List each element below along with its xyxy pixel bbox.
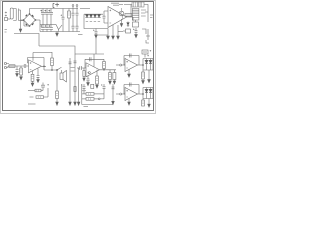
resistor R3 bbox=[9, 65, 15, 68]
capacitor C10 bbox=[103, 11, 106, 23]
component blob bbox=[123, 29, 131, 33]
wire bridge right corner bbox=[36, 20, 41, 32]
label dash op-amp4 input bbox=[116, 93, 119, 95]
wire feedback U2 bbox=[28, 58, 45, 67]
diode D6 bbox=[149, 59, 152, 71]
node 0V rail bbox=[40, 31, 80, 33]
wire x57 down bbox=[56, 70, 58, 91]
diode D5 bbox=[145, 59, 148, 71]
label resistor bottom-left bbox=[30, 96, 34, 98]
label mains bbox=[5, 30, 7, 33]
right corner wires bbox=[145, 12, 148, 22]
capacitor C16 series bbox=[80, 66, 86, 70]
rails for diodes 2 bbox=[143, 88, 153, 99]
resistor R4 bbox=[20, 66, 23, 80]
wire input bbox=[7, 64, 25, 68]
resistor R2 bbox=[125, 14, 132, 17]
diode D2 bbox=[89, 14, 92, 17]
capacitor C20 feedback bbox=[130, 54, 132, 58]
wire U5 output bbox=[138, 93, 144, 95]
heatsink block bbox=[132, 9, 146, 21]
ground arrow G9 bbox=[69, 102, 72, 105]
ground arrow G14 bbox=[148, 99, 151, 108]
op-amp U3 bbox=[86, 63, 100, 77]
ground below bridge bbox=[19, 20, 22, 32]
diode D4 bbox=[97, 14, 100, 17]
wire op-amp2 input bbox=[77, 67, 80, 69]
resistor R12 bbox=[142, 70, 145, 84]
capacitor plates on B bbox=[74, 61, 77, 63]
ground arrow G8 bbox=[135, 35, 138, 38]
capacitor C23 feedback bbox=[130, 83, 132, 87]
wire U3 output bbox=[100, 69, 117, 71]
wire stub bbox=[118, 31, 123, 33]
wire long vertical A bbox=[69, 58, 71, 102]
capacitor plates on A bbox=[69, 62, 72, 64]
wire supply Z bbox=[96, 35, 108, 54]
capacitor C18 bbox=[87, 76, 90, 86]
resistor R14 bbox=[82, 98, 99, 101]
wire feedback U5 bbox=[124, 85, 139, 95]
label dash mid bbox=[78, 34, 83, 36]
wire block down bbox=[135, 20, 137, 22]
relay K1 box b bbox=[139, 2, 145, 7]
capacitor C8 bbox=[72, 9, 75, 32]
resistor R15 bbox=[142, 99, 145, 107]
fuse F1 bbox=[10, 8, 13, 19]
capacitor C5 bbox=[44, 25, 49, 32]
resistor R8 bbox=[36, 88, 48, 98]
ground arrow G15 bbox=[77, 102, 80, 105]
wire diode row rail bbox=[84, 13, 103, 15]
capacitor C13 bbox=[16, 66, 19, 77]
op-amp U5 bbox=[125, 88, 138, 101]
input circle 2 bbox=[120, 93, 122, 95]
node + rail V+ bbox=[40, 8, 78, 10]
border frame of schematic page bbox=[3, 2, 154, 111]
label plus bbox=[147, 55, 149, 57]
ground arrow G6 bbox=[117, 25, 120, 39]
speaker LS1 bbox=[60, 70, 66, 82]
bridge rectifier B1 bbox=[23, 13, 36, 26]
terminal circles bbox=[72, 5, 74, 7]
node mid rail bbox=[40, 24, 56, 26]
capacitor C3 bbox=[48, 9, 53, 25]
corner wires right bbox=[142, 29, 150, 40]
ground arrow G16 bbox=[112, 101, 115, 104]
network left vertical bbox=[82, 84, 113, 105]
wire amp input bbox=[104, 11, 108, 23]
capacitor plates on x112.5 bbox=[112, 87, 115, 89]
resistor R16 on B bbox=[74, 87, 76, 92]
ground arrow G13 bbox=[128, 99, 131, 106]
wire junction diagonals bbox=[56, 25, 62, 32]
wire mains routing bbox=[14, 34, 39, 47]
resistor R7 bbox=[56, 91, 59, 105]
wire feedback U3 bbox=[85, 59, 104, 68]
wire tap to network bbox=[78, 68, 80, 102]
resistor R5 bbox=[31, 71, 34, 86]
capacitor C9 bbox=[76, 9, 79, 32]
wire long vertical B bbox=[74, 54, 76, 102]
capacitor C24 bbox=[41, 83, 49, 91]
wire bbox=[122, 64, 125, 66]
diode D7 bbox=[145, 88, 148, 99]
wire U4 output bbox=[138, 64, 144, 66]
resistor R17 bbox=[83, 68, 85, 81]
rails for diodes bbox=[143, 59, 153, 71]
label dashes below diodes bbox=[86, 21, 100, 23]
relay wire bbox=[124, 5, 148, 13]
label +V bbox=[53, 3, 59, 8]
ground G2 bbox=[56, 32, 59, 37]
wire feedback U4 bbox=[124, 56, 139, 66]
label dashes mid bbox=[71, 68, 76, 72]
resistor R11 bbox=[109, 70, 112, 84]
resistor R1 bbox=[68, 9, 71, 32]
diode D8 bbox=[149, 88, 152, 99]
op-amp U1 power amplifier bbox=[108, 7, 127, 28]
wire bridge + output to top rail bbox=[30, 9, 41, 15]
capacitor C7 bbox=[61, 9, 65, 32]
diode D9 bbox=[127, 22, 129, 28]
input jack J1 bbox=[4, 62, 6, 64]
op-amp U2 bbox=[29, 60, 42, 73]
label dashes network bbox=[82, 90, 86, 92]
diode D3 bbox=[93, 14, 96, 17]
relay K1 box a bbox=[132, 2, 138, 7]
resistor R18 bbox=[28, 89, 43, 92]
label text dashes bbox=[80, 8, 90, 10]
AC plug P1 bbox=[5, 12, 8, 21]
capacitor C14 series bbox=[24, 64, 28, 68]
label box right bbox=[142, 50, 151, 54]
transformer T1 bbox=[13, 9, 29, 27]
ground arrow G7 bbox=[120, 19, 123, 27]
capacitor C15 bbox=[37, 69, 40, 83]
label above U1 bbox=[111, 3, 119, 5]
ground arrow G5 bbox=[112, 25, 115, 39]
switch SW1 bbox=[57, 67, 62, 70]
ground arrow G10 bbox=[74, 102, 77, 105]
ground G3 bbox=[95, 35, 98, 38]
label dashes bbox=[150, 15, 153, 18]
ground arrow G4 bbox=[107, 29, 110, 40]
diode D1 bbox=[85, 14, 88, 17]
junction circle bbox=[98, 98, 100, 100]
wire bbox=[122, 93, 125, 95]
wire power stub U2 bbox=[33, 53, 52, 61]
capacitor C19 box bbox=[113, 70, 116, 84]
ground arrow G11 bbox=[128, 70, 131, 78]
wire to amp lower input bbox=[84, 14, 108, 28]
outer edge bbox=[1, 1, 156, 114]
box below bbox=[133, 22, 139, 27]
ground arrow G12 bbox=[148, 70, 151, 83]
capacitor C21 bbox=[81, 84, 85, 94]
small L wire bbox=[146, 40, 149, 43]
label dashes bbox=[28, 103, 36, 105]
resistor R13 bbox=[82, 93, 104, 96]
label dashes bbox=[84, 105, 89, 107]
capacitor C4 bbox=[40, 25, 45, 32]
capacitor C6 bbox=[48, 25, 53, 32]
op-amp U4 bbox=[125, 59, 138, 72]
wire U1 output bbox=[127, 5, 134, 22]
capacitor C1 bbox=[40, 9, 45, 25]
input circle bbox=[120, 64, 122, 66]
wire speaker node bbox=[44, 66, 57, 70]
wire plug to fuse bbox=[8, 18, 11, 20]
label dashes bbox=[119, 4, 123, 6]
capacitor C2 bbox=[44, 9, 49, 25]
small box network bbox=[91, 84, 94, 88]
label dash op-amp3 input bbox=[116, 64, 119, 66]
resistor R9 bbox=[103, 59, 106, 70]
capacitor C22 bbox=[101, 84, 105, 94]
wire U2 output bbox=[42, 65, 47, 68]
resistor R10 bbox=[96, 70, 99, 88]
capacitor C12 bbox=[133, 28, 137, 35]
wire power stub U3 bbox=[93, 54, 95, 67]
capacitor C17 feedback bbox=[90, 57, 92, 61]
transistor Q1 bbox=[119, 8, 124, 19]
wire enclosure outline bbox=[39, 46, 104, 54]
capacitor C11 bbox=[93, 29, 97, 35]
resistor R6 bbox=[51, 52, 54, 70]
